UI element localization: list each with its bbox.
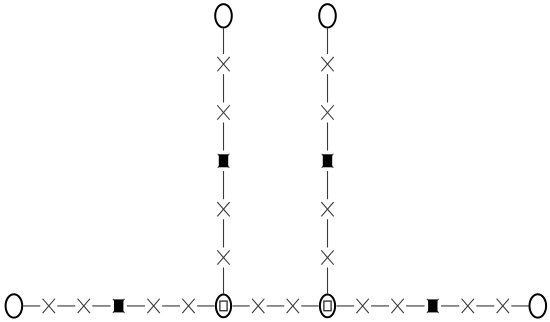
source terminal SRC1 xyxy=(6,294,23,317)
junction node (circled square) JCT1 xyxy=(216,295,231,318)
closed switch (filled square) SQ4 xyxy=(322,154,334,168)
wire W26 (branch 2 segment) xyxy=(327,219,329,247)
wire W5 (bus segment) xyxy=(162,305,180,307)
switch (X) X9 xyxy=(462,299,474,313)
wire W9 (bus segment) xyxy=(301,305,318,307)
switch (X) X13 xyxy=(217,202,229,216)
wire W14 (bus segment) xyxy=(476,305,494,307)
junction node (circled square) JCT2 xyxy=(320,295,335,318)
source terminal SRC3 xyxy=(215,4,232,27)
switch (X) X4 xyxy=(182,299,194,313)
wire W1 (bus segment) xyxy=(23,305,40,307)
switch (X) X14 xyxy=(217,250,229,264)
closed switch (filled square) SQ3 xyxy=(218,154,230,168)
wire W13 (bus segment) xyxy=(441,305,459,307)
wire W15 (bus segment) xyxy=(511,305,528,307)
wire W6 (bus segment) xyxy=(197,305,215,307)
switch (X) X11 xyxy=(217,57,229,71)
switch (X) X1 xyxy=(43,299,55,313)
closed switch (filled square) SQ1 xyxy=(113,299,125,313)
switch (X) X7 xyxy=(356,299,368,313)
switch (X) X15 xyxy=(321,57,333,71)
wire W23 (branch 2 segment) xyxy=(327,74,329,102)
wire W27 (branch 2 segment) xyxy=(327,268,329,294)
switch (X) X6 xyxy=(287,299,299,313)
wire W18 (branch 1 segment) xyxy=(223,123,225,151)
switch (X) X16 xyxy=(321,105,333,119)
wire W10 (bus segment) xyxy=(337,305,355,307)
wire W11 (bus segment) xyxy=(371,305,389,307)
switch (X) X2 xyxy=(78,299,90,313)
switch (X) X5 xyxy=(252,299,264,313)
switch (X) X8 xyxy=(391,299,403,313)
closed switch (filled square) SQ2 xyxy=(427,299,439,313)
wire W3 (bus segment) xyxy=(92,305,110,307)
wire W2 (bus segment) xyxy=(57,305,75,307)
switch (X) X10 xyxy=(497,299,509,313)
wire W19 (branch 1 segment) xyxy=(223,171,225,199)
wire W22 (branch 2 segment) xyxy=(327,29,329,54)
wire W8 (bus segment) xyxy=(267,305,285,307)
wire W12 (bus segment) xyxy=(406,305,425,307)
wire W24 (branch 2 segment) xyxy=(327,123,329,151)
wire W7 (bus segment) xyxy=(233,305,250,307)
wire W4 (bus segment) xyxy=(127,305,145,307)
switch (X) X12 xyxy=(217,105,229,119)
switch (X) X3 xyxy=(147,299,159,313)
wire W25 (branch 2 segment) xyxy=(327,171,329,199)
wire W20 (branch 1 segment) xyxy=(223,219,225,247)
source terminal SRC2 xyxy=(530,294,547,317)
switch (X) X18 xyxy=(321,250,333,264)
switch (X) X17 xyxy=(321,202,333,216)
wire W17 (branch 1 segment) xyxy=(223,74,225,102)
source terminal SRC4 xyxy=(319,4,336,27)
wire W16 (branch 1 segment) xyxy=(223,29,225,54)
wire W21 (branch 1 segment) xyxy=(223,268,225,294)
